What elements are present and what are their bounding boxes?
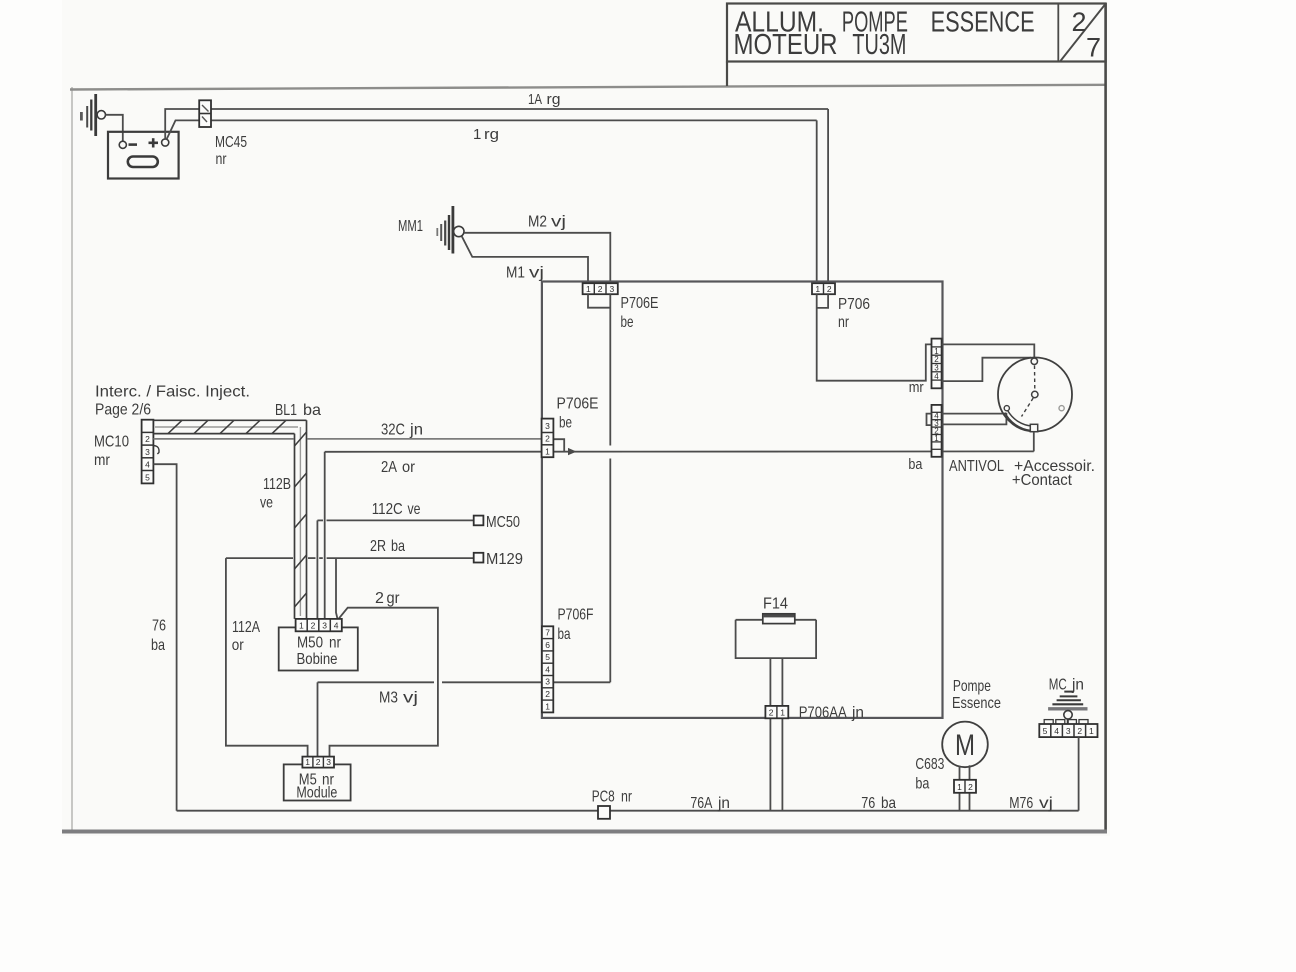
svg-text:MC: MC [1049,676,1067,693]
svg-text:ba: ba [558,626,571,643]
wire M1 vj [462,236,588,283]
wire M76 vj (up to MC) [1078,737,1080,811]
bottom wire (76A jn / 76 ba / M76 vj) [177,810,1079,812]
svg-text:4: 4 [934,372,939,381]
connector P706E (top, pins 1 2 3) [583,283,618,294]
svg-text:vj: vj [551,214,566,231]
svg-text:1: 1 [780,707,785,717]
svg-text:Essence: Essence [952,695,1001,712]
svg-text:ANTIVOL: ANTIVOL [949,458,1004,475]
wire P706 to antivol connector [817,294,932,381]
svg-text:jn: jn [717,795,730,812]
svg-text:jn: jn [851,705,864,722]
svg-text:1: 1 [957,782,962,792]
svg-text:ba: ba [303,402,321,419]
connector P706F (left edge, pins 7..1) [542,626,553,712]
svg-text:mr: mr [909,379,924,396]
svg-text:2: 2 [769,707,774,717]
svg-text:M: M [955,729,975,762]
svg-text:ba: ba [915,776,929,793]
wire 2R ba / 112A or [226,558,474,757]
antivol internal wires (lower) [942,414,1007,425]
svg-text:jn: jn [409,422,423,439]
svg-text:ba: ba [881,795,896,812]
wire M2 vj [464,233,610,284]
ground (battery masse) [81,94,105,136]
svg-text:3: 3 [545,421,550,431]
svg-text:or: or [232,637,245,654]
svg-text:mr: mr [94,452,111,469]
svg-text:BL1: BL1 [275,402,297,419]
shielded cable BL1 (horizontal band) [153,420,306,433]
svg-text:3: 3 [545,677,550,687]
svg-text:vj: vj [403,690,418,707]
svg-text:2: 2 [827,284,832,294]
svg-text:ESSENCE: ESSENCE [931,6,1035,38]
svg-text:7: 7 [545,628,550,638]
svg-text:Interc. / Faisc. Inject.: Interc. / Faisc. Inject. [95,384,250,401]
svg-text:1: 1 [299,621,304,631]
connector C683 (pins 1 2) [954,780,976,793]
svg-text:32C: 32C [381,422,405,439]
wire 1A rg (battery + to MC45 to P706) [165,109,828,283]
svg-text:vj: vj [1039,795,1053,812]
svg-text:2: 2 [316,757,321,767]
svg-text:ba: ba [908,456,923,473]
svg-text:ba: ba [151,637,165,654]
svg-text:76: 76 [152,618,166,635]
boitier (big box) [542,282,943,718]
module connector (pins 1 2 3) [302,757,334,768]
svg-text:P706E: P706E [557,396,599,413]
module M5 box [284,764,351,801]
battery [108,132,179,179]
svg-text:2: 2 [545,689,550,699]
svg-text:+Contact: +Contact [1012,472,1073,489]
connector PC8 [592,789,633,819]
svg-text:nr: nr [216,151,228,168]
svg-text:76: 76 [861,795,875,812]
svg-text:1: 1 [545,701,550,711]
svg-text:MC10: MC10 [94,434,129,451]
svg-text:2A: 2A [381,459,397,476]
svg-text:3: 3 [610,284,615,294]
svg-text:2: 2 [1072,7,1087,37]
antivol internal wires (upper) [942,344,1035,381]
wire 1 rg [167,120,817,283]
svg-text:3: 3 [145,447,150,457]
svg-text:ba: ba [391,538,405,555]
wire join below P706E [588,294,610,682]
ground MC (masse pompe) [1048,692,1087,724]
svg-text:2R: 2R [370,538,386,555]
fuse F14 [736,596,817,624]
svg-text:1: 1 [473,126,481,143]
connector MC45 [199,100,211,127]
svg-text:76A: 76A [690,795,712,812]
svg-text:M50: M50 [297,635,323,652]
antivol key switch circle [998,358,1072,452]
ground MM1 [437,206,464,254]
svg-text:M1: M1 [506,265,525,282]
svg-text:MC45: MC45 [215,134,247,151]
svg-text:112C: 112C [372,501,403,518]
svg-text:P706F: P706F [558,607,594,624]
pump wires [960,765,970,810]
svg-text:nr: nr [329,635,341,652]
svg-text:ve: ve [408,501,421,518]
svg-text:5: 5 [145,473,150,483]
connector MC (pins 5 4 3 2 1) [1039,720,1097,738]
svg-text:nr: nr [621,789,633,806]
svg-text:2: 2 [968,782,973,792]
svg-text:5: 5 [545,652,550,662]
label ANTIVOL +Accessoir. +Contact [949,458,1095,489]
coil M50 Bobine box [279,627,358,670]
svg-text:3: 3 [1066,726,1071,736]
wire 2 gr [330,608,438,757]
svg-text:5: 5 [1043,726,1048,736]
svg-text:1: 1 [1089,726,1094,736]
svg-text:Module: Module [296,785,337,802]
svg-text:MOTEUR: MOTEUR [734,29,838,61]
svg-text:3: 3 [322,621,327,631]
connector P706 (pins 1 2) [812,283,835,294]
svg-text:M2: M2 [528,214,547,231]
wire M3 vj [318,682,611,757]
svg-text:C683: C683 [915,756,944,773]
svg-text:M76: M76 [1009,795,1033,812]
coil connector (pins 1 2 3 4) [296,619,342,631]
svg-text:2: 2 [311,621,316,631]
svg-text:1: 1 [305,757,310,767]
svg-text:Pompe: Pompe [953,678,991,695]
svg-text:PC8: PC8 [592,789,615,806]
connector M129 [474,551,523,568]
wire 76 ba (MC10 down to bottom) [153,464,176,811]
connector MC50 [474,514,520,531]
connector P706E (left edge, pins 3 2 1) [542,419,554,458]
svg-text:gr: gr [387,590,401,607]
svg-text:Page 2/6: Page 2/6 [95,402,151,419]
svg-text:2: 2 [145,434,150,444]
svg-text:4: 4 [145,460,150,470]
title block [727,4,1106,87]
svg-text:3: 3 [326,757,331,767]
svg-text:rg: rg [547,91,561,108]
connector antivol lower (ba) [927,405,942,457]
svg-text:P706: P706 [838,296,870,313]
svg-text:1A: 1A [528,91,542,108]
svg-text:F14: F14 [763,596,788,613]
svg-text:or: or [402,459,416,476]
wire 32C jn [153,439,564,452]
fuse loop wires [736,620,817,811]
svg-text:4: 4 [1054,726,1059,736]
svg-text:vj: vj [529,265,544,282]
wire 2A or (to antivol contact) [325,448,1034,619]
connector P706AA (pins 2 1) [765,706,788,718]
svg-text:2: 2 [598,284,603,294]
svg-text:M129: M129 [486,551,523,568]
shielded cable BL1 (vertical band to coil) [295,420,307,619]
svg-text:4: 4 [545,664,550,674]
svg-text:2: 2 [545,434,550,444]
svg-text:6: 6 [545,640,550,650]
svg-text:4: 4 [334,621,339,631]
svg-text:2: 2 [375,590,384,607]
svg-text:2: 2 [1077,726,1082,736]
wire ground to battery minus [106,115,123,141]
svg-text:TU3M: TU3M [852,29,906,61]
svg-text:1: 1 [586,284,591,294]
svg-text:Bobine: Bobine [297,651,338,668]
svg-text:1: 1 [815,284,820,294]
svg-text:112A: 112A [232,619,260,636]
connector MC10 (pins 2 3 4 5) [142,420,159,484]
svg-text:rg: rg [484,126,499,143]
wire 112C ve to MC50 [317,520,473,619]
svg-text:P706AA: P706AA [799,705,847,722]
svg-text:MM1: MM1 [398,218,423,235]
fuel pump motor [942,722,988,768]
svg-text:nr: nr [838,314,850,331]
svg-text:1: 1 [934,434,939,443]
svg-text:ve: ve [260,495,273,512]
svg-text:M3: M3 [379,690,398,707]
svg-text:be: be [559,415,572,432]
connector antivol upper (mr) [932,339,942,389]
svg-text:be: be [621,314,634,331]
svg-text:P706E: P706E [621,295,659,312]
svg-text:MC50: MC50 [486,514,520,531]
svg-text:1: 1 [545,447,550,457]
border frame [62,3,1107,833]
svg-text:7: 7 [1086,33,1101,63]
svg-text:112B: 112B [263,476,291,493]
